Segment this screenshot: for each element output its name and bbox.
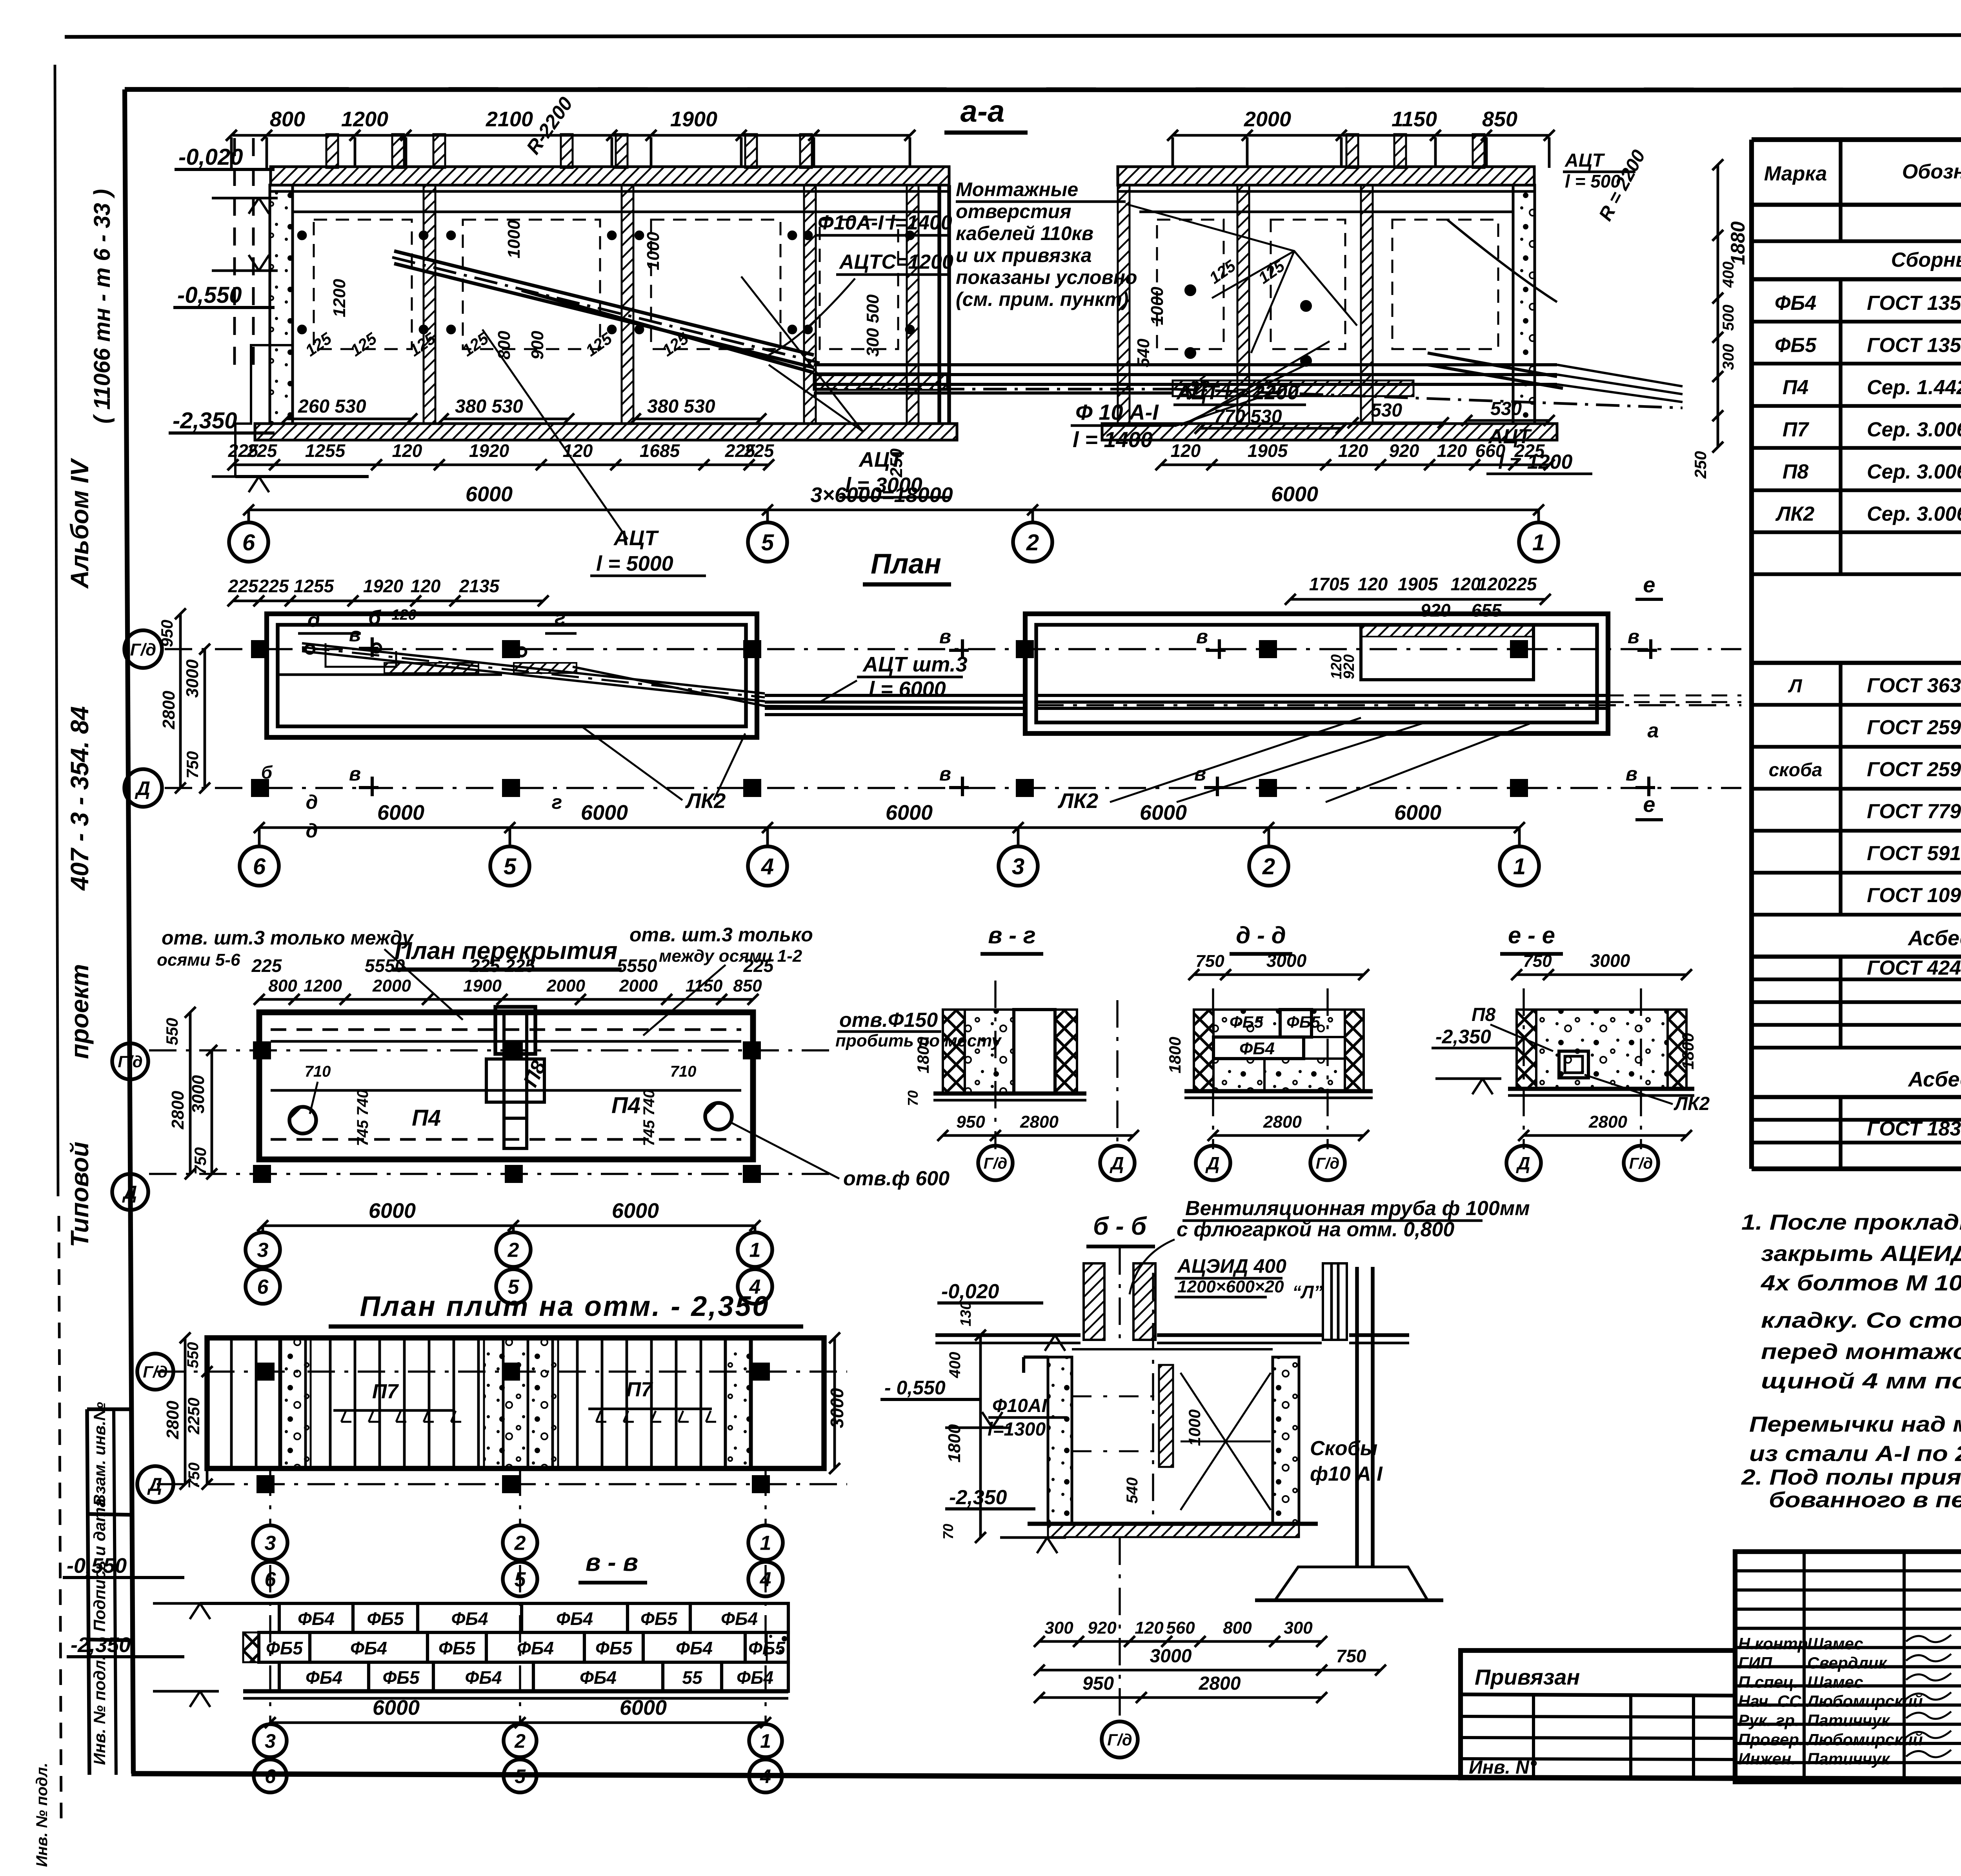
svg-text:ФБ4: ФБ4 <box>1775 292 1816 315</box>
svg-text:6000: 6000 <box>466 482 513 506</box>
svg-text:б: б <box>261 762 273 782</box>
svg-text:6: 6 <box>257 1276 269 1299</box>
plan cable bundle between buildings <box>765 694 1025 697</box>
svg-text:Ф 10 А-I: Ф 10 А-I <box>1075 400 1159 424</box>
svg-text:750: 750 <box>183 751 202 779</box>
svg-text:в: в <box>939 763 951 785</box>
svg-text:l = 5000: l = 5000 <box>596 552 673 575</box>
svg-text:в - г: в - г <box>988 922 1036 948</box>
svg-text:Г/д: Г/д <box>984 1155 1007 1172</box>
svg-text:225: 225 <box>743 955 774 976</box>
svg-text:2000: 2000 <box>372 976 411 995</box>
svg-text:2: 2 <box>514 1532 526 1555</box>
svg-text:900: 900 <box>528 331 547 360</box>
svg-text:П4: П4 <box>1783 376 1808 399</box>
svg-text:1: 1 <box>749 1239 761 1262</box>
svg-text:д: д <box>306 791 318 813</box>
svg-text:Инв. № подл.: Инв. № подл. <box>90 1656 109 1765</box>
svg-text:ГОСТ 2590-71*: ГОСТ 2590-71* <box>1867 758 1961 781</box>
a-a cables in right building <box>1173 363 1557 366</box>
svg-text:l = 6000: l = 6000 <box>869 677 946 701</box>
margin stamp boxes <box>87 1407 130 1411</box>
plan axis lines <box>165 648 1741 650</box>
svg-text:в: в <box>1196 626 1208 648</box>
svg-text:745 740: 745 740 <box>354 1090 371 1146</box>
plan building 2 (axes 3-1) <box>1025 614 1608 733</box>
a-a right vertical dim chain <box>1717 165 1719 447</box>
svg-text:6000: 6000 <box>612 1199 659 1223</box>
svg-text:ФБ5: ФБ5 <box>1230 1013 1264 1031</box>
svg-text:300: 300 <box>1284 1618 1313 1638</box>
svg-text:закрыть АЦЕИД’ными досками: закрыть АЦЕИД’ными досками 120×80×2,0 по… <box>1761 1241 1961 1266</box>
svg-text:ф10 А I: ф10 А I <box>1310 1463 1383 1485</box>
svg-text:1880: 1880 <box>1727 221 1749 265</box>
svg-text:-0,020: -0,020 <box>941 1280 999 1303</box>
svg-text:Рук. гр.: Рук. гр. <box>1738 1711 1799 1730</box>
svg-text:в: в <box>1626 763 1637 785</box>
svg-text:750: 750 <box>1336 1646 1366 1666</box>
svg-text:3000: 3000 <box>1150 1646 1192 1667</box>
svg-text:Взам. инв.№: Взам. инв.№ <box>90 1402 109 1506</box>
svg-text:Нач. СС: Нач. СС <box>1738 1692 1801 1710</box>
svg-text:Г/д: Г/д <box>143 1363 167 1381</box>
svg-text:300: 300 <box>1044 1618 1073 1638</box>
svg-text:Типовой: Типовой <box>65 1142 94 1247</box>
svg-text:3: 3 <box>1012 854 1024 879</box>
svg-text:6000: 6000 <box>1394 801 1441 824</box>
svg-text:770 530: 770 530 <box>1214 406 1282 427</box>
svg-text:П.спец.: П.спец. <box>1738 1673 1798 1691</box>
svg-text:2800: 2800 <box>159 691 178 730</box>
a-a top dimension row <box>231 134 910 137</box>
svg-text:1685: 1685 <box>640 440 680 461</box>
svg-text:ГОСТ 10906-78: ГОСТ 10906-78 <box>1867 884 1961 907</box>
svg-text:кабелей 110кв: кабелей 110кв <box>956 222 1093 244</box>
svg-text:из стали А-I по 2 шт. ф 8.: из стали А-I по 2 шт. ф 8. l= 900мм <box>1749 1441 1961 1466</box>
svg-text:2: 2 <box>508 1239 519 1262</box>
svg-text:1: 1 <box>760 1730 771 1752</box>
svg-text:-2,350: -2,350 <box>949 1486 1007 1509</box>
svg-text:Патиччук: Патиччук <box>1807 1749 1890 1768</box>
svg-text:Г/д: Г/д <box>118 1052 142 1071</box>
svg-text:осями 5-6: осями 5-6 <box>157 950 240 970</box>
svg-text:560: 560 <box>1166 1618 1195 1638</box>
svg-text:ФБ4: ФБ4 <box>465 1667 502 1688</box>
svg-text:2000: 2000 <box>1244 107 1291 131</box>
svg-text:6: 6 <box>265 1765 276 1787</box>
svg-text:Любомирский: Любомирский <box>1806 1730 1923 1749</box>
svg-text:540: 540 <box>1134 338 1153 368</box>
svg-text:Д: Д <box>135 777 150 799</box>
plan bldg1 interior <box>278 673 502 676</box>
svg-text:2000: 2000 <box>546 976 585 995</box>
svg-text:6: 6 <box>253 854 266 879</box>
svg-text:1920: 1920 <box>363 576 404 596</box>
svg-text:5: 5 <box>504 854 517 879</box>
svg-text:Д: Д <box>1205 1153 1219 1174</box>
svg-text:300 500: 300 500 <box>863 294 882 357</box>
svg-text:1000: 1000 <box>1185 1409 1204 1446</box>
svg-text:( 11066 тн - т 6 - 33 ): ( 11066 тн - т 6 - 33 ) <box>89 189 115 424</box>
svg-text:55: 55 <box>682 1667 703 1688</box>
svg-text:1. После прокладки кабелей: 1. После прокладки кабелей 110кВ монтажн… <box>1741 1210 1961 1234</box>
svg-text:д: д <box>306 820 318 842</box>
a-a left building <box>271 167 949 185</box>
svg-text:1: 1 <box>1513 854 1526 879</box>
svg-text:530: 530 <box>1490 398 1522 419</box>
a-a left foundation steps <box>235 345 292 477</box>
svg-text:2: 2 <box>1262 854 1275 879</box>
svg-text:отв.ф 600: отв.ф 600 <box>843 1167 950 1190</box>
svg-text:Альбом IV: Альбом IV <box>65 457 94 589</box>
plan plit bottom circles <box>269 1468 271 1525</box>
svg-text:Н.контр.: Н.контр. <box>1738 1634 1812 1653</box>
svg-text:2800: 2800 <box>163 1401 182 1439</box>
svg-text:Сборные бетонные и же: Сборные бетонные и железобетонные издели… <box>1891 249 1961 271</box>
v-v block rows <box>200 1602 788 1605</box>
svg-text:П7: П7 <box>372 1380 399 1403</box>
svg-text:ГОСТ 4248-78: ГОСТ 4248-78 <box>1867 957 1961 979</box>
svg-text:ЛК2: ЛК2 <box>1775 503 1815 526</box>
svg-text:745 740: 745 740 <box>640 1090 658 1146</box>
svg-text:бованного в перемятый грунт: бованного в перемятый грунт щебня толщин… <box>1769 1487 1961 1512</box>
svg-text:6000: 6000 <box>581 801 628 824</box>
svg-text:2135: 2135 <box>459 576 500 596</box>
svg-text:“Л”: “Л” <box>1292 1282 1323 1302</box>
plan plit body <box>207 1338 824 1468</box>
svg-text:перед монтажом оклеить асбе: перед монтажом оклеить асбестовым картон… <box>1761 1339 1961 1364</box>
perekrytiya axes <box>149 1049 835 1051</box>
svg-text:б - б: б - б <box>1093 1212 1148 1240</box>
svg-text:6000: 6000 <box>369 1199 416 1223</box>
svg-text:850: 850 <box>1482 107 1517 131</box>
svg-text:-0,550: -0,550 <box>67 1554 127 1578</box>
svg-text:6000: 6000 <box>1140 801 1187 824</box>
svg-text:2800: 2800 <box>1263 1112 1302 1132</box>
svg-text:2: 2 <box>514 1730 526 1752</box>
svg-text:ФБ4: ФБ4 <box>721 1609 758 1629</box>
svg-text:380 530: 380 530 <box>647 396 715 417</box>
svg-text:в: в <box>349 763 361 785</box>
main drawing frame <box>125 89 1961 90</box>
svg-text:660: 660 <box>1475 440 1506 461</box>
a-a roof stubs (wall tops) <box>326 134 338 168</box>
svg-text:ФБ4: ФБ4 <box>1239 1039 1275 1058</box>
svg-text:120: 120 <box>1437 440 1467 461</box>
svg-text:-2,350: -2,350 <box>173 408 237 433</box>
svg-text:ФБ4: ФБ4 <box>298 1609 335 1629</box>
svg-text:Асбестоцементные трубы: Асбестоцементные трубы <box>1907 1068 1961 1091</box>
svg-text:показаны условно: показаны условно <box>956 266 1137 288</box>
v-v axis circles <box>269 1565 271 1723</box>
svg-text:ГОСТ 2590-71*: ГОСТ 2590-71* <box>1867 716 1961 739</box>
plan cable run bldg1 <box>302 643 765 701</box>
svg-text:ФБ5: ФБ5 <box>367 1609 404 1629</box>
svg-text:130: 130 <box>958 1301 974 1326</box>
svg-text:проект: проект <box>65 964 94 1059</box>
b-b pit interior <box>1152 1273 1154 1516</box>
svg-text:225: 225 <box>258 576 289 596</box>
svg-text:950: 950 <box>1082 1673 1114 1694</box>
svg-text:5: 5 <box>515 1765 526 1787</box>
svg-text:4: 4 <box>760 1765 771 1787</box>
svg-text:Асбестоцементные листы: Асбестоцементные листы <box>1907 926 1961 950</box>
a-a top extension lines <box>230 137 233 168</box>
svg-text:800: 800 <box>1223 1618 1252 1638</box>
svg-text:1200: 1200 <box>304 976 342 995</box>
svg-text:2250: 2250 <box>184 1397 203 1434</box>
svg-text:120: 120 <box>1135 1618 1164 1638</box>
a-a axis circles <box>247 510 250 522</box>
svg-text:2000: 2000 <box>619 976 658 995</box>
svg-text:225: 225 <box>247 440 278 461</box>
svg-text:-0,020: -0,020 <box>178 144 243 170</box>
svg-text:225: 225 <box>1506 574 1537 594</box>
svg-text:1800: 1800 <box>914 1037 932 1073</box>
svg-text:1900: 1900 <box>670 107 717 131</box>
svg-text:ЛК2: ЛК2 <box>1674 1094 1710 1114</box>
svg-text:920: 920 <box>1341 654 1357 679</box>
svg-text:Г/д: Г/д <box>1107 1730 1132 1749</box>
svg-text:Монтажные: Монтажные <box>956 178 1078 200</box>
specification table <box>1752 137 1961 142</box>
svg-text:920: 920 <box>1088 1618 1117 1638</box>
svg-text:ФБ5: ФБ5 <box>595 1638 633 1658</box>
svg-text:500: 500 <box>1720 305 1737 331</box>
svg-text:Г/д: Г/д <box>1629 1155 1653 1172</box>
svg-text:д - д: д - д <box>1236 922 1286 948</box>
svg-text:530: 530 <box>1371 400 1402 421</box>
svg-text:АЦТС=1200: АЦТС=1200 <box>839 251 953 273</box>
svg-text:План плит на отм. - 2,350: План плит на отм. - 2,350 <box>360 1291 770 1322</box>
svg-text:1255: 1255 <box>305 440 346 461</box>
svg-text:-2,350: -2,350 <box>1435 1026 1491 1048</box>
svg-text:ФБ4: ФБ4 <box>306 1667 342 1688</box>
svg-text:850: 850 <box>733 976 762 995</box>
svg-text:а-а: а-а <box>960 94 1005 128</box>
svg-text:ГОСТ 7798-77*: ГОСТ 7798-77* <box>1867 800 1961 823</box>
svg-text:ФБ4: ФБ4 <box>580 1667 617 1688</box>
svg-text:950: 950 <box>956 1112 985 1132</box>
svg-text:Сер. 3.006-2: Сер. 3.006-2 <box>1867 503 1961 526</box>
svg-text:- 0,550: - 0,550 <box>884 1377 946 1399</box>
svg-text:5550: 5550 <box>617 955 657 976</box>
svg-text:6000: 6000 <box>373 1696 420 1720</box>
svg-text:в - в: в - в <box>586 1548 638 1576</box>
svg-text:ФБ5: ФБ5 <box>1286 1013 1321 1031</box>
svg-text:710: 710 <box>305 1063 331 1080</box>
svg-text:400: 400 <box>1720 262 1737 288</box>
svg-text:Д: Д <box>1109 1153 1124 1174</box>
svg-text:2800: 2800 <box>1020 1112 1059 1132</box>
plan bldg2 right room detail <box>1361 625 1534 680</box>
perekrytiya holes <box>289 1107 316 1134</box>
svg-text:1255: 1255 <box>294 576 335 596</box>
a-a right building <box>1118 167 1534 185</box>
svg-text:125: 125 <box>659 329 692 360</box>
svg-text:ФБ4: ФБ4 <box>350 1638 387 1658</box>
svg-text:1150: 1150 <box>1392 107 1437 131</box>
a-a dashed wall axis at left <box>233 138 236 365</box>
svg-text:225: 225 <box>251 955 282 976</box>
svg-text:2100: 2100 <box>486 107 533 131</box>
svg-text:3000: 3000 <box>827 1388 847 1428</box>
svg-text:1000: 1000 <box>644 232 663 270</box>
a-a cable ducts left <box>394 251 814 368</box>
perekrytiya body <box>259 1012 753 1159</box>
svg-text:Марка: Марка <box>1764 162 1827 185</box>
svg-text:6000: 6000 <box>886 801 933 824</box>
svg-text:2. Под полы приямков выполнит: 2. Под полы приямков выполнить подготовк… <box>1741 1465 1961 1489</box>
svg-text:2800: 2800 <box>1588 1112 1627 1132</box>
svg-text:-2,350: -2,350 <box>71 1633 131 1657</box>
svg-text:Д: Д <box>122 1182 137 1203</box>
svg-text:АЦЭИД 400: АЦЭИД 400 <box>1177 1255 1286 1277</box>
svg-text:1: 1 <box>1532 530 1545 555</box>
svg-text:Привязан: Привязан <box>1475 1665 1580 1689</box>
svg-text:Г/д: Г/д <box>130 640 156 659</box>
svg-text:2800: 2800 <box>168 1091 187 1130</box>
svg-text:План: План <box>871 548 941 580</box>
svg-text:отверстия: отверстия <box>956 200 1071 222</box>
svg-text:Сер. 1.442.1-1 Вып.1.2: Сер. 1.442.1-1 Вып.1.2 <box>1867 376 1961 399</box>
svg-text:3×6000=18000: 3×6000=18000 <box>810 483 953 507</box>
svg-text:920: 920 <box>1389 440 1419 461</box>
svg-text:и их привязка: и их привязка <box>956 244 1092 266</box>
a-a horizontal cable bundle to right <box>814 363 1173 366</box>
svg-text:120: 120 <box>392 440 422 461</box>
svg-text:6000: 6000 <box>1271 482 1318 506</box>
svg-text:l=1300: l=1300 <box>988 1419 1046 1440</box>
svg-text:отв. шт.3 только: отв. шт.3 только <box>629 924 813 946</box>
svg-text:655: 655 <box>1472 600 1502 620</box>
svg-text:(см. прим. пункт): (см. прим. пункт) <box>956 288 1129 310</box>
svg-text:225: 225 <box>228 576 259 596</box>
svg-text:Сер. 3.006-2: Сер. 3.006-2 <box>1867 460 1961 483</box>
svg-text:1800: 1800 <box>945 1424 964 1463</box>
b-b ground line <box>935 1333 1081 1337</box>
svg-text:П7: П7 <box>626 1378 653 1401</box>
svg-text:ФБ4: ФБ4 <box>676 1638 713 1658</box>
svg-text:4: 4 <box>761 854 774 879</box>
svg-text:407 - 3 - 354. 84: 407 - 3 - 354. 84 <box>65 706 94 891</box>
svg-text:Д: Д <box>147 1474 162 1495</box>
svg-text:АЦТ: АЦТ <box>1564 150 1605 171</box>
svg-text:щиной 4 мм по всей площади: щиной 4 мм по всей площади доски. <box>1761 1368 1961 1393</box>
svg-text:5550: 5550 <box>365 955 405 976</box>
svg-text:3000: 3000 <box>183 659 202 698</box>
svg-text:225: 225 <box>1514 440 1545 461</box>
svg-text:ФБ5: ФБ5 <box>382 1667 420 1688</box>
svg-text:800: 800 <box>495 331 514 360</box>
svg-text:1900: 1900 <box>463 976 502 995</box>
svg-text:l = 1400: l = 1400 <box>1073 427 1153 452</box>
svg-text:125: 125 <box>347 329 380 360</box>
svg-text:П8: П8 <box>1472 1004 1496 1025</box>
svg-text:4х болтов М 10 l=100 мм , з: 4х болтов М 10 l=100 мм , заделанных в к… <box>1761 1270 1961 1295</box>
svg-text:1200×600×20: 1200×600×20 <box>1177 1277 1284 1296</box>
svg-text:Свердлик: Свердлик <box>1807 1654 1887 1672</box>
svg-text:2: 2 <box>1026 530 1039 555</box>
svg-text:1000: 1000 <box>504 220 524 258</box>
svg-text:1200: 1200 <box>341 107 388 131</box>
svg-text:225 225: 225 225 <box>469 955 536 976</box>
svg-text:ГИП: ГИП <box>1738 1654 1772 1672</box>
svg-text:750: 750 <box>186 1463 203 1489</box>
svg-text:3: 3 <box>265 1730 276 1752</box>
svg-text:70: 70 <box>940 1524 956 1539</box>
svg-text:в: в <box>349 624 361 646</box>
svg-text:ФБ4: ФБ4 <box>556 1609 593 1629</box>
svg-text:П7: П7 <box>1783 419 1809 441</box>
svg-text:3000: 3000 <box>1590 950 1630 971</box>
svg-text:Л: Л <box>1788 676 1803 697</box>
svg-text:скоба: скоба <box>1769 760 1823 781</box>
svg-text:1800: 1800 <box>1166 1037 1184 1073</box>
svg-text:120: 120 <box>1358 574 1388 594</box>
svg-text:300: 300 <box>1720 344 1737 370</box>
svg-text:3: 3 <box>257 1239 269 1262</box>
svg-text:П4: П4 <box>412 1105 441 1131</box>
svg-text:ГОСТ 3634-79: ГОСТ 3634-79 <box>1867 674 1961 697</box>
svg-text:П8: П8 <box>1783 460 1808 483</box>
perekrytiya center shaft <box>495 1007 535 1054</box>
svg-text:АЦТ шт.3: АЦТ шт.3 <box>862 653 968 676</box>
svg-text:125: 125 <box>1206 256 1239 287</box>
svg-text:ФБ4: ФБ4 <box>451 1609 488 1629</box>
svg-text:750: 750 <box>1523 952 1552 971</box>
svg-text:Провер.: Провер. <box>1738 1730 1804 1749</box>
svg-text:е: е <box>1643 572 1655 597</box>
svg-text:ФБ5: ФБ5 <box>640 1609 678 1629</box>
svg-text:ФБ4: ФБ4 <box>517 1638 554 1658</box>
svg-text:ЛК2: ЛК2 <box>685 789 726 813</box>
svg-text:1920: 1920 <box>469 440 509 461</box>
svg-text:Г/д: Г/д <box>1316 1155 1339 1172</box>
svg-text:2800: 2800 <box>1199 1673 1241 1694</box>
a-a duct bank strips between buildings <box>814 373 947 390</box>
svg-text:125: 125 <box>302 329 335 360</box>
svg-text:710: 710 <box>670 1063 697 1080</box>
svg-text:1800: 1800 <box>1679 1033 1697 1069</box>
svg-text:Шамес: Шамес <box>1807 1634 1863 1653</box>
svg-text:АЦТ l = 2200: АЦТ l = 2200 <box>1176 381 1299 404</box>
svg-text:в: в <box>1628 626 1639 648</box>
svg-text:отв. шт.3 только между: отв. шт.3 только между <box>162 927 414 949</box>
plan plit axes & squares <box>157 1370 847 1372</box>
svg-text:6000: 6000 <box>620 1696 667 1720</box>
svg-text:3000: 3000 <box>1266 950 1307 971</box>
svg-text:ФБ5: ФБ5 <box>266 1638 303 1658</box>
svg-text:Инв. N°: Инв. N° <box>1469 1757 1537 1778</box>
svg-text:е: е <box>1643 792 1655 817</box>
sheet top edge line <box>65 35 1961 37</box>
svg-text:Перемычки над монтажными пр: Перемычки над монтажными проемами - рядо… <box>1749 1412 1961 1436</box>
svg-text:Патиччук: Патиччук <box>1807 1711 1890 1730</box>
svg-text:г: г <box>552 791 562 813</box>
svg-text:120: 120 <box>1451 574 1481 594</box>
svg-text:кладку. Со стороны кабелей 1: кладку. Со стороны кабелей 110кВ АЦЕИД’н… <box>1761 1308 1961 1332</box>
svg-text:ФБ4: ФБ4 <box>737 1667 773 1688</box>
plan bldg2 interior cables <box>1036 694 1608 697</box>
outer thin left edge line <box>55 65 58 1196</box>
svg-text:380 530: 380 530 <box>455 396 523 417</box>
svg-text:1150: 1150 <box>686 976 723 995</box>
svg-text:Инв. № подл.: Инв. № подл. <box>33 1763 51 1867</box>
svg-text:120: 120 <box>563 440 593 461</box>
svg-text:950: 950 <box>158 620 176 647</box>
b-b pit <box>1048 1357 1072 1524</box>
